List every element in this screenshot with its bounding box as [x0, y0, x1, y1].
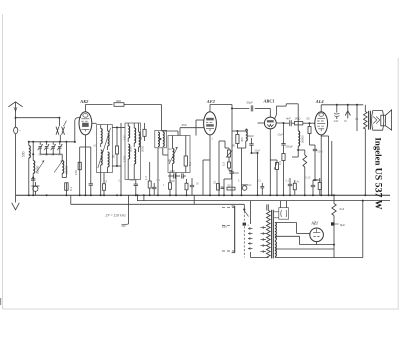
capacitor block C23 [279, 201, 289, 220]
wire [317, 242, 334, 245]
wire grid [196, 120, 204, 136]
wire [70, 195, 72, 204]
wire [3, 308, 400, 310]
wire cathode [84, 135, 86, 196]
spark gap [344, 104, 350, 123]
resistor R8 [169, 173, 172, 196]
svg-text:AL4: AL4 [315, 99, 325, 104]
wire [157, 148, 159, 195]
wire [251, 201, 269, 258]
svg-text:~: ~ [19, 129, 21, 133]
label AF2 [206, 99, 216, 104]
ground [12, 195, 20, 210]
resistor R4 [103, 173, 106, 196]
svg-text:Ingelen US 537 W: Ingelen US 537 W [373, 138, 384, 210]
svg-text:8μF: 8μF [340, 223, 345, 227]
wire [275, 257, 363, 259]
svg-text:0,2: 0,2 [181, 176, 185, 179]
wire [231, 107, 249, 109]
wire [252, 149, 258, 196]
wire [74, 142, 76, 143]
bandfilter box [125, 123, 141, 180]
switch S1 [243, 204, 248, 216]
zigzag choke [303, 150, 307, 195]
fuse F1 [14, 127, 22, 133]
coil L9 [123, 144, 130, 166]
svg-text:50pF: 50pF [247, 101, 254, 105]
svg-text:220: 220 [222, 224, 227, 228]
variable arrow [54, 161, 62, 173]
svg-text:0,1: 0,1 [355, 118, 359, 121]
svg-text:100: 100 [170, 169, 175, 173]
svg-text:3000: 3000 [129, 145, 133, 152]
wire coil bus [29, 141, 75, 143]
svg-text:0,1: 0,1 [119, 180, 123, 183]
wire [193, 195, 195, 204]
wire [276, 122, 283, 124]
resistor R13 [294, 117, 302, 125]
coil L5 [101, 150, 103, 173]
svg-text:AF2: AF2 [206, 99, 216, 104]
label ZF [105, 214, 127, 218]
wire [362, 200, 364, 258]
wire [40, 148, 62, 154]
wire [255, 108, 271, 117]
capacitor C18 [284, 117, 292, 127]
tube AL4 [315, 112, 328, 135]
resistor R5 [111, 127, 118, 168]
wire [328, 136, 330, 195]
trimmer C3 [44, 144, 49, 150]
wire [65, 183, 67, 196]
node [32, 153, 67, 196]
wire [224, 176, 232, 195]
wire grid cap lead [75, 118, 81, 143]
wire [16, 117, 60, 119]
variable arrow [36, 161, 44, 173]
wire screen [92, 122, 97, 124]
wire bus2 [137, 200, 390, 202]
wire [269, 129, 271, 196]
capacitor C11 [168, 169, 180, 183]
wire link [112, 128, 125, 167]
label ABC1 [263, 98, 275, 103]
svg-text:2000: 2000 [140, 145, 144, 152]
loudspeaker [372, 110, 392, 130]
wire cathode [209, 135, 211, 196]
tube ABC1 [264, 117, 276, 129]
resistor R17 field coil [332, 194, 345, 215]
coil L4 [101, 125, 103, 148]
wire [231, 131, 233, 195]
wire plate [84, 105, 86, 112]
resistor R1 [65, 183, 73, 191]
transformer T3 primary [266, 204, 270, 257]
resistor R9 [232, 131, 239, 148]
trimmer C2 [38, 144, 43, 150]
capacitor C25 [221, 187, 225, 188]
wire [162, 131, 179, 136]
svg-text:1302: 1302 [123, 155, 127, 162]
transformer T3 secondary HT [274, 212, 279, 241]
svg-text:AK2: AK2 [79, 99, 89, 104]
svg-text:50: 50 [228, 183, 231, 187]
coil L14 [240, 129, 247, 148]
resistor R15 [313, 178, 321, 195]
wire [58, 118, 60, 127]
fuse F2 [243, 223, 250, 227]
wire [257, 123, 265, 154]
wire [62, 142, 66, 178]
svg-text:6x4: 6x4 [340, 207, 345, 211]
coil L2 [33, 161, 39, 175]
capacitor C13 [248, 134, 255, 149]
wire [219, 141, 232, 195]
capacitor C22 [190, 178, 194, 195]
wire chassis bus [16, 194, 391, 196]
capacitor C16 [281, 122, 293, 151]
capacitor C7 [31, 182, 39, 195]
svg-text:5000: 5000 [130, 179, 136, 182]
capacitor C15 [247, 101, 254, 112]
resistor R12 [293, 180, 296, 195]
wire [40, 142, 60, 145]
svg-text:500: 500 [21, 151, 25, 157]
wire [136, 195, 138, 200]
svg-text:5000: 5000 [233, 171, 239, 175]
wire selector dashed [243, 211, 245, 258]
svg-text:1,2: 1,2 [144, 176, 148, 180]
wire [313, 160, 320, 181]
wire [331, 141, 333, 195]
capacitor C24 8uF [331, 222, 345, 245]
svg-text:30: 30 [232, 143, 236, 147]
wire [321, 135, 328, 137]
resistor R11 [278, 151, 285, 195]
wire [364, 129, 366, 196]
wire cathode [320, 135, 322, 196]
node [157, 194, 159, 196]
node dots [28, 152, 367, 196]
wire [232, 130, 246, 132]
svg-text:0,1: 0,1 [258, 180, 262, 183]
svg-text:50pF: 50pF [248, 134, 255, 138]
svg-text:50: 50 [196, 183, 199, 186]
wire [32, 142, 34, 195]
wire [120, 123, 122, 195]
coil L1 [21, 146, 30, 158]
resistor R16 [185, 179, 188, 195]
oscillator box [168, 136, 190, 173]
wire [275, 248, 334, 250]
resistor R20 [227, 183, 235, 190]
wire [124, 105, 162, 131]
variable arrow [169, 147, 178, 164]
svg-text:50: 50 [111, 154, 115, 158]
coil L11 [134, 149, 136, 170]
svg-text:ZF = 128 kHz: ZF = 128 kHz [105, 214, 127, 218]
svg-text:ABC1: ABC1 [263, 98, 275, 103]
wire [275, 223, 310, 234]
svg-text:50: 50 [307, 117, 311, 121]
wire [310, 140, 316, 145]
potentiometer P2 [270, 160, 278, 195]
svg-text:50pF: 50pF [278, 134, 284, 137]
svg-text:4n: 4n [297, 181, 300, 184]
resistor R18 [139, 123, 146, 141]
wire [309, 233, 311, 234]
svg-text:300: 300 [240, 137, 244, 142]
wire [175, 173, 177, 196]
svg-text:M2: M2 [94, 145, 98, 148]
transformer T3 secondary heater [275, 236, 317, 256]
svg-text:50000: 50000 [300, 135, 304, 143]
wire [266, 204, 268, 210]
capacitor C12 [182, 173, 186, 178]
label AK2 [79, 99, 89, 104]
svg-text:0,1: 0,1 [69, 186, 73, 191]
wire plate [275, 104, 299, 120]
svg-text:30A: 30A [168, 148, 173, 151]
svg-text:5000: 5000 [318, 151, 324, 154]
wire plate [320, 105, 322, 112]
svg-text:1: 1 [163, 184, 165, 187]
svg-text:AZ1: AZ1 [311, 222, 319, 226]
wire [85, 104, 112, 106]
wire [321, 104, 363, 106]
mains plug [222, 206, 235, 253]
svg-text:7n: 7n [344, 119, 348, 123]
capacitor C10 [152, 183, 156, 195]
variable arrow [98, 128, 111, 168]
antenna [8, 102, 22, 111]
wire [143, 195, 145, 200]
capacitor C8 [89, 147, 93, 195]
svg-text:300: 300 [116, 99, 121, 103]
wire [180, 123, 204, 135]
dial lamp [122, 195, 129, 226]
wire [237, 148, 245, 195]
svg-text:25: 25 [105, 181, 108, 184]
label AL4 [315, 99, 325, 104]
wire [61, 154, 63, 177]
resistor R2 [74, 162, 81, 175]
wire bus3 [71, 203, 245, 205]
label misc [94, 118, 360, 154]
resistor R3 [114, 99, 124, 106]
capacitor C17 [288, 178, 292, 195]
wire [128, 166, 134, 180]
node [28, 141, 76, 143]
svg-text:20000: 20000 [36, 165, 40, 174]
svg-text:50: 50 [139, 136, 143, 140]
wire [59, 135, 61, 142]
wire plate [210, 105, 232, 132]
node A [15, 117, 61, 119]
wire [80, 146, 91, 148]
transformer T2 [364, 105, 371, 130]
svg-text:1MΩ: 1MΩ [295, 117, 301, 121]
label AZ1 [311, 222, 319, 226]
resistor R10 [222, 162, 231, 171]
svg-text:0,1: 0,1 [157, 179, 161, 182]
IF transformer T1 [155, 130, 167, 147]
wire [333, 216, 335, 258]
coil L10 [129, 123, 136, 152]
svg-text:50pF: 50pF [255, 150, 261, 153]
capacitor C19 [313, 145, 317, 160]
coil L13 [167, 136, 174, 173]
wire [203, 160, 210, 195]
resistor R19 [212, 180, 219, 190]
coil L8 [123, 123, 130, 142]
wire [356, 104, 358, 131]
wire [15, 118, 17, 196]
svg-text:0,1: 0,1 [286, 180, 290, 183]
svg-text:0,25: 0,25 [306, 177, 311, 180]
wire [397, 58, 399, 309]
tube AK2 [79, 112, 92, 135]
svg-text:4nF: 4nF [286, 117, 291, 121]
tube AF2 [204, 112, 217, 135]
label values row [105, 176, 311, 188]
svg-text:5: 5 [238, 180, 240, 183]
trimmer C5 [57, 144, 62, 150]
capacitor C26 electrolytic [241, 185, 248, 190]
coil L12 [139, 123, 145, 152]
transformer T3 taps [261, 226, 267, 252]
resistor R14 [308, 122, 311, 140]
trimmer C4 [51, 144, 56, 150]
capacitor C20 [311, 180, 315, 195]
capacitor C27 [260, 183, 264, 195]
wire [292, 117, 315, 124]
coil L7 [108, 152, 110, 173]
resistor R7 [184, 136, 192, 173]
wire [2, 14, 4, 309]
svg-text:0,1: 0,1 [212, 180, 216, 184]
wire [163, 148, 168, 155]
svg-text:150: 150 [74, 170, 78, 175]
potentiometer P1 [226, 148, 233, 162]
coil L3 [62, 161, 68, 175]
coil L6 [108, 125, 110, 151]
capacitor C14 [229, 171, 239, 177]
capacitor C21 [334, 104, 340, 123]
capacitor C6 [31, 179, 35, 180]
bandfilter box [97, 125, 113, 173]
svg-text:100: 100 [170, 179, 175, 183]
capacitor C9 [134, 180, 138, 196]
wire [15, 103, 17, 118]
label trimmer values [39, 154, 62, 157]
svg-text:250: 250 [182, 123, 187, 127]
wire [0, 298, 2, 305]
svg-text:110: 110 [248, 184, 253, 187]
svg-text:1: 1 [212, 138, 214, 141]
svg-text:250pF: 250pF [286, 145, 294, 149]
selector taps [248, 227, 253, 249]
svg-text:0,1: 0,1 [188, 162, 192, 166]
svg-text:0,3: 0,3 [222, 162, 226, 166]
svg-text:140: 140 [123, 135, 127, 140]
tube AZ1 [310, 228, 324, 242]
resistor R6 [144, 162, 151, 195]
wire [100, 173, 102, 197]
label Ingelen US 537 W [373, 138, 384, 210]
wire [292, 149, 305, 157]
svg-text:s: s [248, 224, 250, 227]
svg-text:1nF: 1nF [334, 119, 339, 123]
wire [28, 142, 30, 195]
transformer T3 core [272, 210, 274, 259]
coil L15 [298, 120, 304, 150]
trimmer C1 [56, 121, 66, 135]
wire [79, 147, 81, 195]
